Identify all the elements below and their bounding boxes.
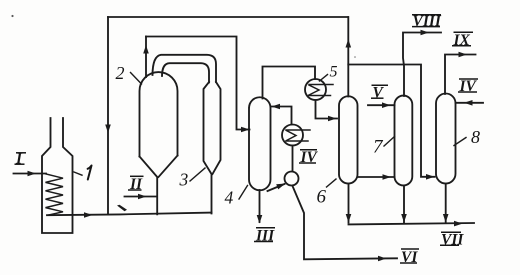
svg-text:V: V <box>373 84 385 101</box>
svg-text:3: 3 <box>179 170 189 190</box>
svg-text:VIII: VIII <box>413 13 442 30</box>
svg-text:II: II <box>129 176 143 193</box>
svg-text:8: 8 <box>471 127 480 147</box>
svg-text:5: 5 <box>330 64 338 81</box>
svg-text:7: 7 <box>373 136 384 157</box>
svg-text:6: 6 <box>317 187 327 208</box>
svg-text:IV: IV <box>300 149 319 166</box>
svg-text:I: I <box>15 150 23 167</box>
svg-text:III: III <box>255 228 275 245</box>
svg-text:IX: IX <box>453 32 471 49</box>
svg-text:4: 4 <box>225 188 234 208</box>
svg-text:IV: IV <box>459 78 478 95</box>
svg-text:2: 2 <box>116 63 125 83</box>
svg-text:VII: VII <box>441 231 464 248</box>
svg-text:VI: VI <box>401 249 418 266</box>
